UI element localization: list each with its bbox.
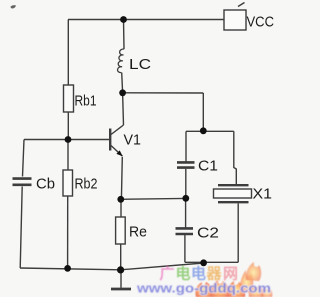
svg-text:X1: X1 xyxy=(253,186,273,203)
capacitor C2 xyxy=(176,228,194,234)
wire ground rail right xyxy=(121,263,204,270)
crystal X1 body xyxy=(214,189,252,198)
resistor Rb2 xyxy=(63,170,73,196)
wire upper link C1-X1 xyxy=(186,130,234,132)
wire bottom ground rail xyxy=(20,268,121,270)
transistor V1 collector diagonal xyxy=(111,125,124,135)
node junction emitter xyxy=(117,196,124,203)
wire emitter vertical xyxy=(120,157,123,199)
wire Rb2 bottom xyxy=(67,196,69,269)
inductor LC coil xyxy=(118,49,125,73)
wire base rail xyxy=(24,139,110,141)
wire emitter link xyxy=(121,197,186,200)
transistor V1 base bar xyxy=(109,129,111,151)
node junction base xyxy=(65,136,72,143)
node junction Rb2 bottom xyxy=(64,265,71,272)
scan smudge artifact xyxy=(11,5,17,8)
crystal X1 plates xyxy=(218,185,249,202)
wire top VCC rail xyxy=(68,19,224,21)
wire Rb1 bottom xyxy=(67,112,69,140)
wire bottom link C2-X1 xyxy=(185,261,238,263)
svg-text:C1: C1 xyxy=(198,158,218,175)
svg-text:网: 网 xyxy=(223,266,238,283)
ground stub xyxy=(120,270,122,288)
svg-text:VCC: VCC xyxy=(247,14,275,31)
capacitor C1 xyxy=(177,162,195,167)
node junction top rail / LC xyxy=(120,16,127,23)
wire LC branch top xyxy=(123,20,126,50)
svg-text:Cb: Cb xyxy=(36,176,55,193)
wire X1 top xyxy=(234,131,237,184)
wire collector node rail xyxy=(123,92,204,94)
wire collector vertical xyxy=(122,93,125,125)
node junction C1 C2 mid xyxy=(182,195,189,202)
svg-text:Rb2: Rb2 xyxy=(75,176,98,193)
node junction ground xyxy=(117,266,124,273)
node junction lower right xyxy=(200,259,207,266)
watermark flames xyxy=(195,262,272,297)
svg-text:C2: C2 xyxy=(197,225,219,242)
wire C2 bottom xyxy=(184,235,186,262)
svg-text:Re: Re xyxy=(129,224,147,241)
wire Cb bottom xyxy=(20,187,22,269)
svg-text:LC: LC xyxy=(129,56,151,73)
transistor V1 emitter diagonal xyxy=(111,146,123,157)
svg-text:www.go-gddq.com: www.go-gddq.com xyxy=(136,282,271,296)
wire Rb2 branch top xyxy=(67,140,69,171)
svg-text:器: 器 xyxy=(206,266,223,283)
resistor Re xyxy=(116,217,126,244)
svg-text:电: 电 xyxy=(191,265,206,283)
wire Rb1 branch top xyxy=(67,20,69,86)
power VCC box xyxy=(224,10,246,30)
wire C1 bottom xyxy=(185,169,187,199)
wire Re bottom xyxy=(120,244,122,270)
wire Re top xyxy=(120,199,122,217)
wire Cb branch top xyxy=(23,140,25,177)
wire X1 bottom xyxy=(237,204,239,263)
resistor Rb1 xyxy=(64,85,74,112)
svg-text:V1: V1 xyxy=(124,132,142,149)
node junction LC bottom / collector xyxy=(119,89,126,96)
node junction upper right xyxy=(200,127,207,134)
svg-text:广: 广 xyxy=(160,265,175,283)
capacitor Cb xyxy=(13,179,32,185)
wire C1 top xyxy=(185,131,187,162)
svg-text:电: 电 xyxy=(176,265,191,283)
tick artifact above VCC xyxy=(238,3,245,7)
wire C2 top xyxy=(185,198,187,227)
svg-text:Rb1: Rb1 xyxy=(75,93,97,110)
wire LC bottom xyxy=(121,73,124,93)
ground bar xyxy=(111,288,131,291)
wire right drop xyxy=(202,93,204,131)
transistor V1 emitter arrow xyxy=(116,150,122,156)
